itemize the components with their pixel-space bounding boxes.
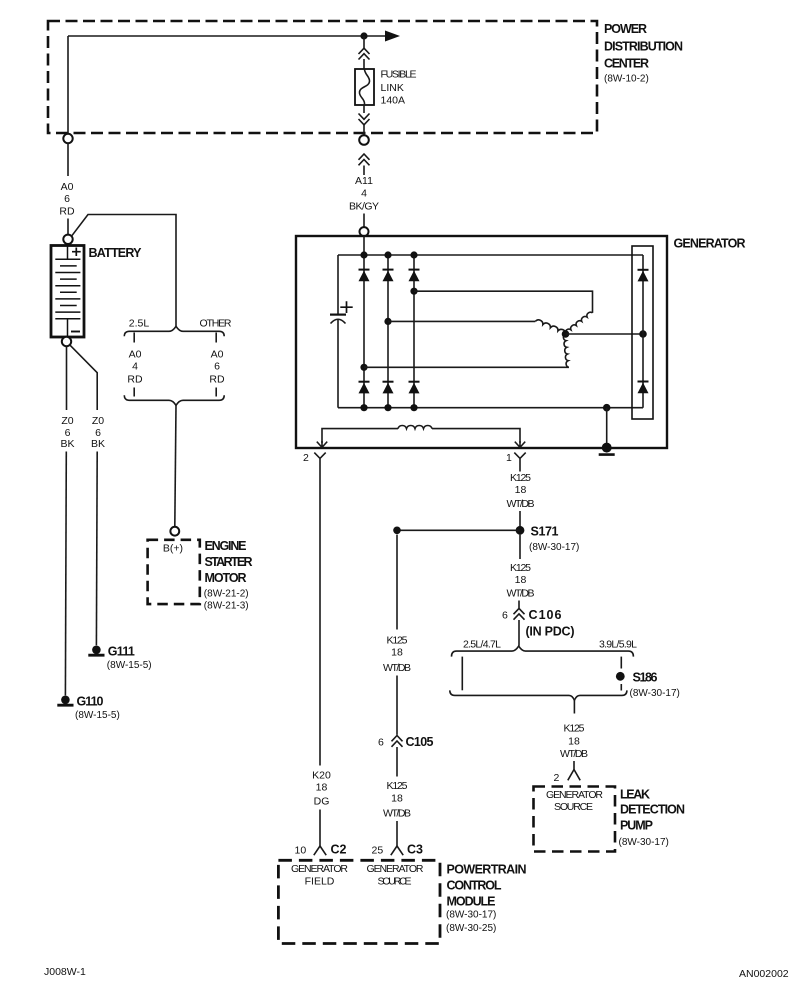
svg-text:(8W-30-17): (8W-30-17) — [446, 910, 496, 921]
svg-text:RD: RD — [127, 374, 143, 386]
rectifier leg 2 — [387, 255, 389, 408]
svg-text:A0: A0 — [211, 349, 224, 361]
wire C106 to brace — [518, 620, 520, 646]
svg-text:(8W-30-25): (8W-30-25) — [446, 923, 496, 934]
svg-text:(8W-21-3): (8W-21-3) — [204, 601, 249, 612]
diode D7 — [638, 270, 649, 282]
svg-text:POWER: POWER — [604, 22, 647, 36]
svg-text:(8W-21-2): (8W-21-2) — [204, 589, 249, 600]
svg-text:GENERATOR: GENERATOR — [367, 863, 424, 875]
svg-text:J008W-1: J008W-1 — [44, 966, 86, 978]
svg-text:A11: A11 — [355, 175, 373, 187]
connector C105 — [392, 736, 403, 747]
wire A0 — [67, 143, 69, 176]
engine starter motor dashed box — [148, 540, 200, 604]
connector C2 fork — [314, 846, 326, 855]
battery minus mark — [71, 331, 80, 333]
svg-text:1: 1 — [506, 452, 512, 464]
wire — [363, 125, 365, 135]
svg-text:10: 10 — [295, 845, 307, 857]
svg-text:C105: C105 — [406, 735, 434, 749]
svg-text:6: 6 — [378, 737, 384, 749]
svg-text:(8W-10-2): (8W-10-2) — [604, 74, 649, 85]
arrow into pin 2 — [317, 441, 327, 447]
svg-text:K125: K125 — [564, 723, 585, 735]
connector chevrons below fusible link — [359, 114, 370, 125]
wire left engines stub — [461, 657, 463, 691]
svg-text:K125: K125 — [387, 635, 408, 647]
ground G111 — [92, 646, 101, 655]
stator winding C — [565, 312, 592, 334]
svg-text:4: 4 — [132, 361, 138, 373]
PCM dashed box — [278, 860, 440, 943]
svg-text:G111: G111 — [108, 645, 135, 659]
svg-text:6: 6 — [502, 610, 508, 622]
svg-text:Z0: Z0 — [61, 415, 73, 427]
wire K125 source mid — [396, 535, 398, 630]
stator winding B — [535, 320, 565, 334]
capacitor plates — [330, 314, 346, 316]
svg-text:WT/DB: WT/DB — [383, 808, 411, 820]
arrow into pin 1 — [515, 441, 525, 447]
rectifier leg 3 — [413, 255, 415, 408]
svg-text:4: 4 — [361, 188, 367, 200]
svg-text:B(+): B(+) — [163, 543, 183, 555]
brace lower — [124, 395, 224, 405]
wire A11 — [363, 166, 365, 176]
svg-text:GENERATOR: GENERATOR — [291, 863, 348, 875]
splice S171 — [516, 526, 525, 535]
wire C105 to C3 — [396, 747, 398, 777]
wire — [67, 219, 69, 235]
svg-text:DG: DG — [314, 796, 330, 808]
svg-text:GENERATOR: GENERATOR — [546, 789, 603, 801]
wire fusible drop — [363, 36, 365, 48]
svg-text:OTHER: OTHER — [200, 318, 232, 330]
diode D3 — [409, 270, 420, 282]
wire right engines stub — [620, 657, 622, 669]
svg-text:18: 18 — [391, 647, 403, 659]
wire to engine starter motor — [175, 405, 176, 527]
stator neutral node — [562, 330, 570, 338]
svg-text:18: 18 — [316, 782, 328, 794]
stator phase B tap — [384, 318, 391, 325]
starter B+ terminal eyelet — [170, 527, 179, 536]
terminal eyelet at PDC exit — [359, 135, 369, 145]
svg-text:LEAK: LEAK — [620, 788, 650, 802]
bus junction dots — [360, 251, 367, 258]
svg-text:K20: K20 — [312, 770, 331, 782]
rectifier bottom bus — [338, 407, 643, 409]
connector C3 fork — [391, 846, 403, 855]
svg-text:GENERATOR: GENERATOR — [674, 237, 746, 251]
svg-text:FUSIBLE: FUSIBLE — [381, 69, 417, 81]
svg-text:2.5L: 2.5L — [129, 318, 150, 330]
leak detection pump dashed box — [534, 787, 616, 852]
svg-text:AN002002: AN002002 — [739, 968, 789, 980]
svg-text:MOTOR: MOTOR — [205, 571, 247, 585]
wire to case ground — [606, 408, 608, 444]
generator case ground — [602, 443, 612, 453]
battery internal plates — [67, 244, 69, 259]
svg-text:DETECTION: DETECTION — [620, 803, 685, 817]
svg-text:WT/DB: WT/DB — [507, 498, 535, 510]
svg-text:WT/DB: WT/DB — [507, 588, 535, 600]
svg-text:(8W-30-17): (8W-30-17) — [529, 542, 579, 553]
node junction top — [360, 32, 367, 39]
svg-text:2.5L/4.7L: 2.5L/4.7L — [463, 639, 501, 651]
brace upper right (engine split) — [452, 646, 634, 657]
avalanche diode leg — [642, 255, 644, 408]
svg-text:A0: A0 — [129, 349, 142, 361]
wire B+ into rectifier — [363, 236, 365, 255]
svg-text:K125: K125 — [387, 780, 408, 792]
svg-text:CONTROL: CONTROL — [447, 879, 502, 893]
svg-text:2: 2 — [303, 452, 309, 464]
wire battery negative left Z0 — [66, 346, 68, 410]
battery plus mark — [72, 248, 81, 257]
svg-text:BK/GY: BK/GY — [349, 201, 379, 213]
svg-text:S186: S186 — [633, 671, 658, 685]
svg-text:S171: S171 — [531, 525, 559, 539]
svg-text:SOURCE: SOURCE — [554, 801, 593, 813]
generator box — [296, 236, 667, 448]
svg-text:2: 2 — [554, 772, 560, 784]
connector C chevrons below eyelet — [359, 154, 370, 165]
svg-text:6: 6 — [214, 361, 220, 373]
diode D5 — [383, 382, 394, 394]
svg-text:C106: C106 — [529, 608, 562, 622]
svg-text:18: 18 — [568, 736, 580, 748]
svg-text:ENGINE: ENGINE — [205, 539, 247, 553]
svg-text:BK: BK — [60, 438, 74, 450]
wire battery negative right Z0 — [70, 345, 97, 410]
diode D8 — [638, 382, 649, 394]
svg-text:BATTERY: BATTERY — [89, 246, 143, 260]
stator winding A — [563, 334, 569, 367]
wire — [363, 59, 365, 69]
wire branch from S171 — [397, 529, 520, 531]
svg-text:3.9L/5.9L: 3.9L/5.9L — [599, 639, 637, 651]
wire — [363, 105, 365, 113]
svg-text:18: 18 — [515, 484, 527, 496]
battery negative terminal eyelet — [62, 337, 71, 346]
svg-text:POWERTRAIN: POWERTRAIN — [447, 863, 527, 877]
svg-text:CENTER: CENTER — [604, 57, 649, 71]
wire A0 6 RD branch — [215, 333, 217, 343]
ground G110 — [61, 696, 70, 705]
PDC dashed box — [48, 21, 597, 133]
svg-text:PUMP: PUMP — [620, 819, 653, 833]
svg-text:MODULE: MODULE — [447, 895, 496, 909]
fusible link F — [355, 69, 374, 105]
svg-text:(8W-30-17): (8W-30-17) — [619, 837, 669, 848]
wire — [363, 214, 365, 228]
generator B+ terminal eyelet — [360, 227, 369, 236]
avalanche diode box — [632, 246, 653, 419]
svg-text:WT/DB: WT/DB — [560, 748, 588, 760]
svg-text:WT/DB: WT/DB — [383, 662, 411, 674]
svg-text:BK: BK — [91, 438, 105, 450]
capacitor plus mark — [340, 301, 352, 313]
svg-text:RD: RD — [59, 206, 75, 218]
svg-text:Z0: Z0 — [92, 415, 104, 427]
rectifier top bus — [338, 254, 643, 256]
battery positive terminal eyelet — [63, 235, 72, 244]
diode D6 — [409, 382, 420, 394]
field winding — [398, 425, 432, 428]
brace lower right — [450, 690, 627, 700]
svg-text:18: 18 — [391, 793, 403, 805]
rectifier leg 1 — [363, 255, 365, 408]
svg-text:140A: 140A — [381, 95, 406, 107]
svg-text:25: 25 — [372, 845, 384, 857]
rotor field winding feed 2 — [322, 429, 398, 443]
svg-text:LINK: LINK — [381, 82, 404, 94]
svg-text:STARTER: STARTER — [205, 555, 253, 569]
wire K20 field — [319, 469, 321, 766]
ground drop junction — [603, 404, 611, 412]
wire K125 to LDP — [573, 700, 575, 713]
svg-text:(8W-15-5): (8W-15-5) — [75, 710, 120, 721]
diode D4 — [359, 382, 370, 394]
wire A0 4 RD branch — [133, 333, 135, 343]
brace upper (2.5L / OTHER) — [124, 326, 224, 336]
svg-text:K125: K125 — [510, 562, 531, 574]
svg-text:K125: K125 — [510, 472, 531, 484]
svg-text:FIELD: FIELD — [305, 876, 335, 888]
svg-text:18: 18 — [515, 574, 527, 586]
wire from battery plus to engine brace — [72, 215, 177, 327]
wire top bus — [68, 35, 385, 37]
svg-text:A0: A0 — [61, 181, 74, 193]
wire K125 source top — [519, 469, 521, 472]
svg-text:6: 6 — [64, 193, 70, 205]
svg-text:C3: C3 — [407, 843, 423, 857]
diode D1 — [359, 270, 370, 282]
svg-text:C2: C2 — [331, 843, 347, 857]
terminal eyelet at PDC exit left — [63, 134, 72, 143]
connector C106 — [514, 608, 525, 619]
svg-text:SOURCE: SOURCE — [378, 876, 412, 888]
stator phase C tap — [410, 288, 417, 295]
diode D2 — [383, 270, 394, 282]
stator phase A tap — [360, 364, 367, 371]
svg-text:DISTRIBUTION: DISTRIBUTION — [604, 40, 683, 54]
arrow — [385, 31, 400, 42]
wire battery feed drop — [67, 36, 69, 134]
connector chevrons above fusible link — [359, 48, 370, 59]
svg-text:(8W-30-17): (8W-30-17) — [630, 688, 680, 699]
svg-text:(IN PDC): (IN PDC) — [526, 625, 575, 639]
splice S186 — [616, 672, 625, 681]
left cap leg — [337, 255, 339, 314]
wire neutral to avalanche diodes — [566, 333, 644, 335]
svg-text:(8W-15-5): (8W-15-5) — [107, 660, 152, 671]
battery box — [51, 246, 84, 338]
svg-text:G110: G110 — [77, 695, 104, 709]
svg-text:RD: RD — [209, 374, 225, 386]
field winding return 1 — [432, 429, 520, 443]
wire S171 to C106 — [519, 535, 521, 559]
